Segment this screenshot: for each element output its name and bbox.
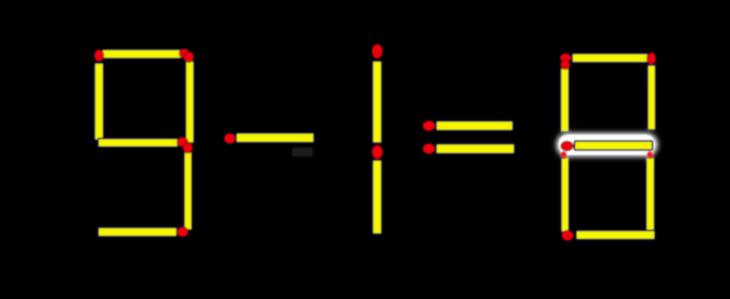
digit 8: segment E (bottom-left vertical matchstick) — [560, 149, 569, 232]
red head tip of segment E peeking below highlight — [561, 151, 567, 157]
digit 9: segment C (bottom-right vertical matchstick) — [183, 143, 193, 231]
digit 9: segment B (top-right vertical matchstick) — [184, 52, 194, 143]
digit 8: segment C (bottom-right vertical matchstick) — [646, 149, 655, 231]
equals sign: lower matchstick — [423, 144, 515, 154]
minus sign matchstick — [224, 133, 314, 144]
highlight glow around digit 8 middle segment — [557, 133, 658, 157]
digit 9: segment G (middle horizontal matchstick) — [98, 137, 188, 147]
digit 1: lower vertical matchstick — [372, 145, 383, 234]
digit 1: upper vertical matchstick — [372, 44, 383, 143]
digit 8: segment D (bottom horizontal matchstick) — [562, 230, 655, 240]
digit 8: segment B (top-right vertical matchstick) — [647, 53, 656, 130]
digit 8: segment A (top horizontal matchstick) — [560, 53, 648, 62]
digit 9: segment A (top horizontal matchstick) — [102, 49, 190, 59]
digit 9: segment D (bottom horizontal matchstick) — [98, 227, 188, 237]
faint artifact rectangle near minus sign — [292, 148, 313, 157]
digit 8: segment F (top-left vertical matchstick) — [561, 60, 571, 132]
digit 8: segment G (middle horizontal matchstick, highlighted) — [561, 141, 653, 151]
red head tip of segment C peeking below highlight — [647, 151, 653, 157]
equals sign: upper matchstick — [423, 121, 513, 131]
digit 9: segment F (top-left vertical matchstick) — [94, 50, 103, 140]
